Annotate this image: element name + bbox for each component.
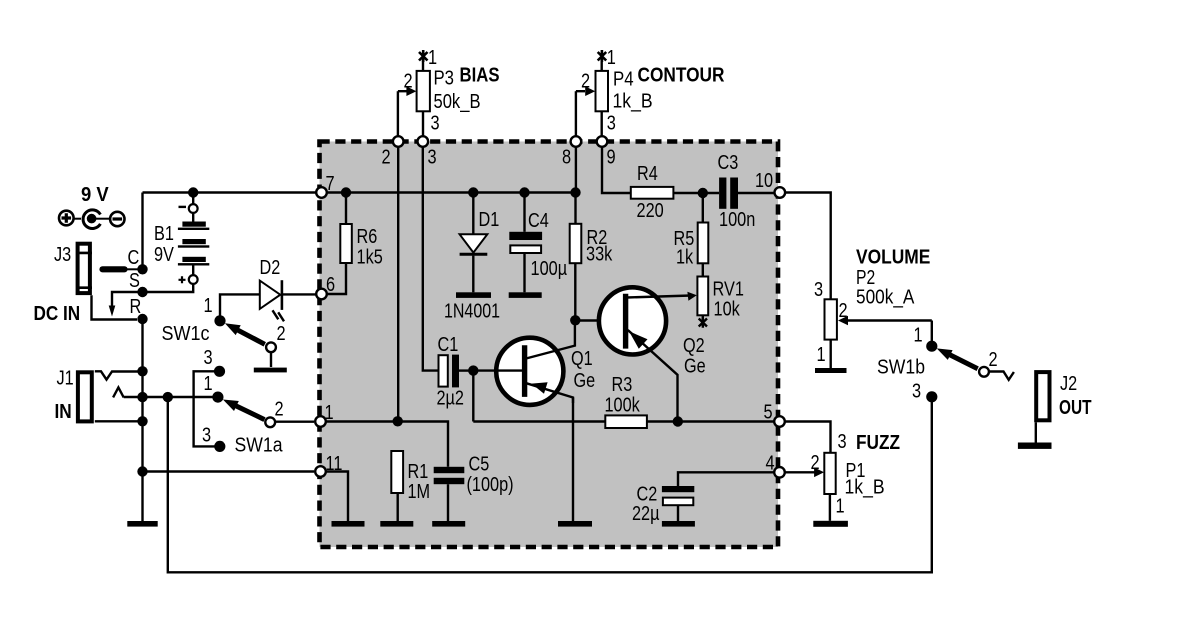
ground (D1)	[456, 292, 491, 298]
battery B1	[178, 193, 209, 284]
junction Q1 collector / Q2 base	[570, 315, 580, 325]
svg-text:9 V: 9 V	[81, 183, 109, 206]
junction C1 / Q1 base	[468, 365, 478, 375]
svg-text:22µ: 22µ	[632, 503, 660, 525]
ground (Q1 emitter)	[558, 521, 592, 527]
transistor Q2	[599, 287, 697, 421]
wire battery plus to S	[147, 284, 193, 292]
switch SW1a	[194, 366, 265, 452]
svg-text:2: 2	[989, 349, 998, 371]
wire ground row to pin 11	[143, 470, 315, 472]
svg-text:1k5: 1k5	[357, 247, 383, 269]
svg-text:SW1b: SW1b	[877, 357, 925, 379]
wire supply rail to pin 7	[143, 191, 318, 193]
junction long wire tap	[163, 392, 173, 402]
pin 11 circle	[315, 466, 326, 477]
node C dot	[137, 264, 147, 274]
svg-text:3: 3	[912, 381, 921, 403]
ground (R1)	[380, 521, 413, 527]
pin 9 circle	[597, 136, 608, 147]
svg-text:D2: D2	[260, 257, 281, 279]
junction battery tap	[188, 187, 198, 197]
wire to Q2 base	[575, 319, 623, 321]
capacitor C5	[434, 467, 465, 521]
connector J1	[78, 372, 92, 421]
svg-text:P4: P4	[613, 69, 634, 91]
wire R4 to C3 junction	[673, 192, 719, 194]
wire pin 9 to R4	[602, 148, 631, 194]
svg-text:1: 1	[914, 325, 923, 347]
resistor R1	[391, 451, 403, 521]
ground (J2)	[1018, 443, 1052, 449]
svg-text:C1: C1	[438, 334, 459, 356]
svg-text:33k: 33k	[586, 244, 613, 266]
SW1a pin 2 circle	[265, 417, 275, 427]
svg-text:R3: R3	[612, 374, 633, 396]
DC center pin barrel	[103, 266, 139, 272]
pin 2 circle	[393, 136, 404, 147]
wire SW1b to J2 tip contact	[990, 372, 1014, 380]
ground (pin 11)	[332, 521, 365, 527]
potentiometer P3	[398, 50, 430, 137]
svg-text:9V: 9V	[154, 244, 174, 266]
wire node2 vertical	[397, 148, 399, 422]
svg-text:6: 6	[326, 274, 335, 296]
svg-text:P3: P3	[434, 68, 455, 90]
potentiometer P1	[786, 453, 836, 521]
svg-text:2: 2	[839, 300, 848, 322]
pin 10 circle	[775, 187, 786, 198]
svg-text:3: 3	[431, 113, 440, 135]
svg-text:DC IN: DC IN	[34, 302, 81, 325]
junction R5 top	[698, 188, 708, 198]
svg-text:1k_B: 1k_B	[845, 477, 885, 499]
node R dot	[137, 314, 147, 324]
ground (C5)	[432, 521, 465, 527]
svg-text:R1: R1	[408, 461, 429, 483]
svg-text:11: 11	[326, 453, 343, 475]
svg-text:J1: J1	[57, 368, 74, 390]
svg-text:1N4001: 1N4001	[444, 301, 500, 323]
svg-text:4: 4	[766, 453, 775, 475]
pin 7 circle	[316, 187, 327, 198]
node J1 sleeve dot	[137, 416, 147, 426]
svg-text:VOLUME: VOLUME	[856, 246, 930, 269]
trimmer RV1	[697, 263, 708, 327]
junction Q2 emitter	[673, 416, 683, 426]
wire S switch arm with arrow	[109, 292, 138, 317]
resistor R3	[605, 415, 647, 428]
wire SW1c to ground	[270, 353, 272, 367]
wire J1 tip contact	[95, 371, 138, 379]
supply rail inside board	[322, 191, 576, 193]
svg-text:R6: R6	[357, 226, 378, 248]
svg-text:3: 3	[838, 431, 847, 453]
connector J3 (DC jack)	[76, 244, 92, 293]
resistor R6	[324, 193, 352, 295]
svg-text:1: 1	[836, 496, 845, 518]
svg-text:RV1: RV1	[713, 279, 744, 301]
svg-text:OUT: OUT	[1059, 396, 1092, 419]
SW1b pin 2 circle	[979, 367, 989, 377]
svg-text:2: 2	[581, 71, 590, 93]
svg-text:9: 9	[607, 147, 616, 169]
capacitor C2	[662, 472, 774, 521]
svg-text:J2: J2	[1060, 373, 1077, 395]
svg-text:2: 2	[277, 323, 286, 345]
input bus pin1 to R1/C5	[327, 422, 449, 467]
svg-text:IN: IN	[55, 400, 72, 423]
ground (C2)	[662, 521, 695, 527]
wire pin 10 to P2	[786, 193, 831, 300]
svg-text:3: 3	[607, 113, 616, 135]
svg-text:2: 2	[275, 399, 284, 421]
wire J1 sleeve	[95, 420, 140, 422]
svg-text:5: 5	[764, 402, 773, 424]
junction C4	[519, 187, 529, 197]
svg-text:D1: D1	[479, 209, 500, 231]
wire node3 vertical to C1	[423, 148, 439, 371]
ground (input common)	[127, 521, 157, 527]
svg-text:R: R	[130, 296, 142, 318]
connector J2	[1036, 372, 1050, 442]
wire R down through J1 contacts to ground	[141, 319, 143, 522]
node J1 tip dot	[137, 366, 147, 376]
long bottom wire to SW1b pin 3	[168, 397, 932, 572]
diode D1	[460, 193, 488, 293]
svg-text:3: 3	[204, 347, 213, 369]
svg-text:10: 10	[755, 170, 773, 192]
svg-text:C: C	[128, 247, 140, 269]
svg-text:Q2: Q2	[683, 335, 705, 357]
svg-text:1: 1	[204, 295, 213, 317]
wire SW1c to LED D2	[220, 294, 260, 315]
resistor R5	[698, 193, 709, 263]
SW1c pin 2 circle	[266, 342, 276, 352]
potentiometer P4	[576, 50, 608, 137]
wire D2 to pin 6	[282, 293, 316, 295]
capacitor C1	[439, 355, 474, 388]
svg-text:7: 7	[326, 173, 335, 195]
svg-text:1k: 1k	[676, 247, 694, 269]
svg-text:3: 3	[428, 147, 437, 169]
switch SW1c	[214, 315, 264, 344]
svg-text:Ge: Ge	[574, 370, 596, 392]
junction R6	[341, 187, 351, 197]
node S dot	[137, 287, 147, 297]
ground (C4)	[509, 292, 542, 298]
9V polarity icon	[59, 210, 125, 229]
svg-text:1: 1	[428, 47, 437, 69]
svg-text:1: 1	[325, 402, 334, 424]
svg-text:2: 2	[382, 147, 391, 169]
switch SW1b	[926, 341, 978, 403]
svg-text:100k: 100k	[605, 395, 641, 417]
svg-text:R4: R4	[637, 163, 658, 185]
svg-text:1: 1	[204, 373, 213, 395]
resistor R2	[570, 193, 582, 321]
junction R2 / pin 8	[570, 187, 580, 197]
ground (SW1c)	[254, 368, 287, 373]
wire pin 11 to ground	[327, 472, 349, 522]
svg-text:Q1: Q1	[571, 348, 593, 370]
wire SW1a to pin 1	[276, 421, 314, 423]
svg-text:C3: C3	[718, 152, 739, 174]
svg-text:BIAS: BIAS	[460, 64, 500, 87]
wire Q1 emitter to ground	[572, 398, 574, 522]
svg-text:2: 2	[404, 71, 413, 93]
pin 1 circle	[315, 416, 326, 427]
pin 3 circle	[418, 136, 429, 147]
svg-text:220: 220	[637, 200, 664, 222]
svg-text:1: 1	[817, 344, 826, 366]
capacitor C4	[509, 193, 542, 293]
ground (P1)	[813, 521, 848, 527]
svg-text:C5: C5	[469, 454, 490, 476]
wire C1 junction down to feedback rail	[472, 371, 474, 422]
svg-text:1: 1	[607, 47, 616, 69]
svg-text:3: 3	[814, 279, 823, 301]
svg-text:C4: C4	[528, 210, 549, 232]
wire pin 8 down to rail	[575, 148, 577, 193]
potentiometer P2	[825, 299, 932, 368]
svg-text:100n: 100n	[719, 209, 755, 231]
wire J1 ring contact	[113, 387, 124, 397]
svg-text:8: 8	[562, 147, 571, 169]
svg-text:50k_B: 50k_B	[434, 91, 481, 113]
svg-text:1k_B: 1k_B	[613, 91, 653, 113]
pin 5 circle	[774, 416, 785, 427]
node J1 ring dot	[137, 392, 147, 402]
svg-text:SW1c: SW1c	[162, 323, 210, 345]
svg-text:10k: 10k	[714, 299, 741, 321]
svg-text:J3: J3	[54, 244, 71, 266]
svg-text:Ge: Ge	[684, 356, 706, 378]
svg-text:2µ2: 2µ2	[437, 388, 465, 410]
svg-text:B1: B1	[154, 223, 174, 245]
svg-text:1M: 1M	[408, 481, 431, 503]
capacitor C3	[719, 178, 774, 209]
transistor Q1	[473, 320, 575, 405]
wire J3 sleeve to R	[92, 295, 138, 319]
pin 8 circle	[571, 136, 582, 147]
LED D2	[260, 280, 284, 321]
feedback rail to pin 5	[473, 420, 774, 422]
pin 4 circle	[774, 467, 785, 478]
circuit board (dashed gray module)	[320, 142, 779, 548]
svg-text:FUZZ: FUZZ	[856, 431, 900, 454]
node ground row dot	[137, 466, 147, 476]
svg-text:3: 3	[202, 425, 211, 447]
pin 6 circle	[316, 289, 327, 300]
wire C up to supply rail	[141, 193, 143, 270]
svg-text:(100p): (100p)	[467, 474, 514, 496]
svg-text:SW1a: SW1a	[235, 435, 284, 457]
ground (P2)	[815, 368, 847, 373]
wire ring row to SW1a	[124, 396, 213, 398]
svg-text:500k_A: 500k_A	[856, 287, 915, 309]
junction R1	[393, 416, 403, 426]
svg-text:100µ: 100µ	[531, 258, 568, 280]
junction D1	[468, 187, 478, 197]
svg-text:CONTOUR: CONTOUR	[638, 64, 725, 87]
wire pin 5 to P1	[786, 422, 831, 453]
resistor R4	[631, 187, 674, 199]
svg-text:2: 2	[811, 452, 820, 474]
svg-text:S: S	[129, 270, 140, 292]
